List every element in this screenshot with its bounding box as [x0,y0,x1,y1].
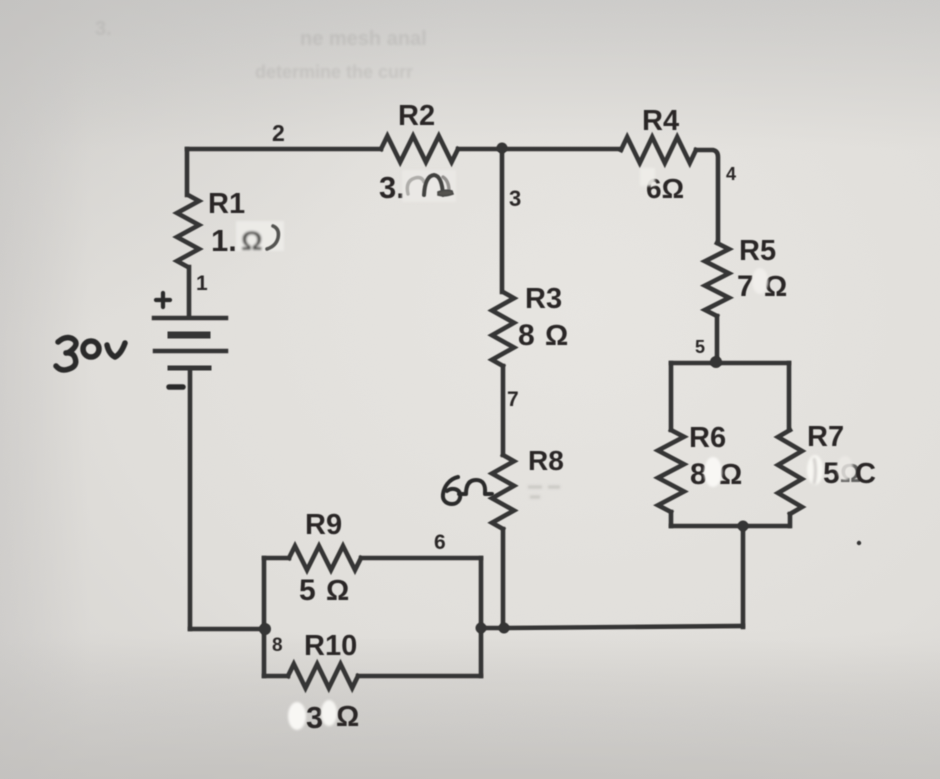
svg-text:R3: R3 [525,283,562,315]
svg-text:3: 3 [306,700,323,735]
svg-text:4: 4 [726,164,736,184]
svg-text:Ω: Ω [326,575,349,607]
svg-text:3.: 3. [379,170,405,205]
svg-text:determine the curr: determine the curr [255,62,413,82]
svg-text:2: 2 [272,120,285,146]
svg-text:Ω: Ω [719,459,742,491]
svg-text:5: 5 [695,337,705,357]
svg-text:Ω: Ω [764,271,787,303]
svg-text:R1: R1 [208,188,245,220]
svg-text:8: 8 [272,635,283,656]
svg-text:1.: 1. [211,223,237,258]
svg-text:R6: R6 [689,422,726,454]
svg-text:R5: R5 [739,235,776,267]
svg-text:R4: R4 [642,105,679,137]
svg-text:R9: R9 [305,509,342,541]
svg-text:6: 6 [434,531,446,554]
svg-text:ne mesh anal: ne mesh anal [300,28,427,50]
svg-text:R7: R7 [807,421,844,453]
svg-text:5: 5 [823,457,840,490]
svg-text:Ω: Ω [241,226,263,256]
svg-text:C: C [855,458,876,490]
svg-text:8: 8 [518,319,535,352]
svg-text:5: 5 [299,574,316,607]
svg-text:7: 7 [507,388,519,411]
svg-text:R8: R8 [528,445,564,476]
svg-text:R10: R10 [304,630,357,662]
svg-text:1: 1 [196,272,208,295]
svg-text:3.: 3. [95,18,112,40]
svg-text:7: 7 [737,270,754,303]
svg-text:R2: R2 [398,100,435,132]
svg-text:Ω: Ω [336,701,359,733]
svg-text:3: 3 [509,186,521,211]
svg-text:Ω: Ω [545,320,568,352]
